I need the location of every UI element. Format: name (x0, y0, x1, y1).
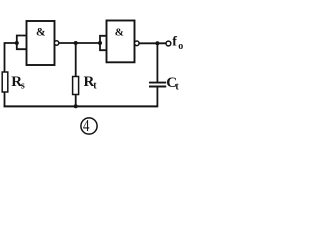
nand gate U1 body (27, 21, 55, 65)
junction dot at Rt bottom on bus (74, 104, 78, 108)
figure number circle 4 (81, 117, 97, 135)
wire: Rs bottom lead (4, 92, 6, 107)
wire: Rt top lead (75, 43, 77, 77)
wire: U1 input stubs and tie line (17, 35, 27, 51)
nand gate U1 "&" label (36, 27, 46, 39)
wire: U1 input node left and down to Rs (5, 43, 17, 73)
junction dot at Rt top branch (74, 41, 78, 45)
wire: U2 input stubs and tie line (100, 35, 107, 51)
nand gate U2 "&" label (115, 26, 124, 38)
nand gate U2 output bubble (135, 41, 140, 46)
svg-text:&: & (36, 27, 46, 39)
nand gate U2 body (107, 21, 135, 63)
junction dot at U2 input node (98, 41, 102, 45)
junction dot at Ct top branch (155, 41, 159, 45)
label fo (172, 34, 183, 51)
label Rs (11, 74, 25, 92)
label Ct (166, 75, 179, 93)
svg-text:4: 4 (83, 117, 90, 135)
wire: U1 output to U2 input (node A) (59, 42, 101, 44)
resistor Rt body (73, 77, 79, 95)
resistor Rs body (2, 72, 8, 92)
wire: bottom bus (5, 105, 158, 106)
output terminal circle fo (166, 41, 171, 46)
nand gate U1 output bubble (54, 41, 58, 45)
wire: Rt bottom lead (75, 95, 77, 108)
svg-text:o: o (178, 41, 183, 52)
capacitor Ct plates (149, 83, 166, 87)
svg-text:&: & (115, 26, 124, 38)
svg-text:f: f (172, 34, 177, 49)
svg-text:s: s (21, 80, 25, 91)
wire: Ct bottom lead (156, 87, 158, 107)
wire: Ct top lead (156, 43, 158, 82)
junction dot at U1 input node (15, 41, 19, 45)
wire: U2 output to terminal (139, 42, 166, 44)
label Rt (84, 74, 98, 92)
